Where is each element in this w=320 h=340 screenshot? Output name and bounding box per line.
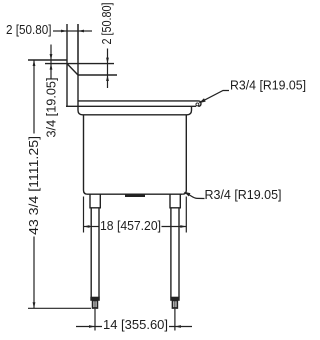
body left wall with R3/4 bottom corner (84, 115, 88, 194)
arrowhead: leader bottom R3/4 (184, 192, 191, 197)
dim 3/4: line segments (50, 45, 52, 64)
left foot (93, 300, 98, 308)
left leg socket (90, 194, 100, 208)
svg-text:43 3/4 [1111.25]: 43 3/4 [1111.25] (26, 136, 41, 235)
svg-text:18 [457.20]: 18 [457.20] (100, 218, 161, 233)
svg-text:R3/4 [R19.05]: R3/4 [R19.05] (205, 187, 282, 202)
right foot flange (171, 297, 180, 300)
arrowheads: dim 3/4 (50, 54, 53, 60)
dim 14: line tails (76, 326, 102, 328)
right leg (170, 208, 172, 297)
leader top R3/4 (200, 91, 230, 103)
dim 18: line (84, 226, 100, 228)
arrowhead: leader top R3/4 (199, 98, 206, 103)
arrowheads: dim 43 3/4 (33, 60, 36, 66)
left foot flange (91, 297, 100, 300)
rim bottom line (66, 105, 196, 107)
backsplash front reference line C (extension for vertical 2in dim) (78, 74, 117, 76)
svg-text:R3/4 [R19.05]: R3/4 [R19.05] (230, 77, 306, 92)
backsplash back face vertical (66, 24, 68, 106)
neck right vertical with corner into body top (187, 106, 192, 115)
right leg socket (170, 194, 180, 208)
dim 2in horizontal extension verticals (77, 24, 79, 60)
dim 43 3/4: line segments (33, 60, 35, 134)
left leg (90, 208, 92, 297)
dim 18: extension lines (83, 197, 85, 233)
svg-text:14 [355.60]: 14 [355.60] (103, 317, 168, 332)
svg-text:3/4 [19.05]: 3/4 [19.05] (44, 78, 59, 138)
svg-text:2 [50.80]: 2 [50.80] (6, 22, 52, 37)
floor extension line (28, 307, 91, 309)
dim 14: extension lines (94, 309, 96, 331)
arrowheads: dim 14 (89, 325, 95, 328)
right foot (173, 300, 178, 308)
backsplash top edge / extension line to overall-height dim (28, 59, 67, 61)
body bottom line (88, 193, 183, 195)
arrowheads: dim 2in vertical (106, 58, 109, 64)
sink back wall / neck left vertical with corner into body top (78, 24, 83, 115)
rim top line with rolled right end (78, 101, 201, 106)
dim 2in vertical: line segments (107, 49, 109, 76)
body top line (83, 114, 188, 116)
leader bottom R3/4 (185, 192, 205, 198)
body right wall with R3/4 bottom corner (182, 115, 186, 194)
svg-text:2 [50.80]: 2 [50.80] (99, 3, 114, 45)
backsplash roll line B (3/4 ref, extends right as extension for vertical 2in dim) (45, 63, 114, 65)
arrowheads: dim 2in horizontal (61, 30, 67, 33)
backsplash slope diagonal (67, 64, 78, 75)
rim rolled curl (196, 103, 199, 106)
arrowheads: dim 18 (84, 225, 90, 228)
dim 2in horizontal: line segments (53, 30, 67, 32)
drain fitting dash (125, 194, 145, 197)
